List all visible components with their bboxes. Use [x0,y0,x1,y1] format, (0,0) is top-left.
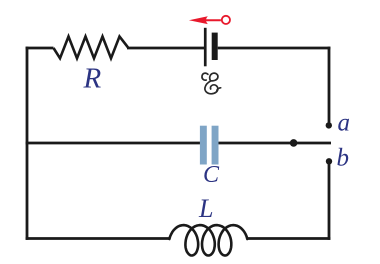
switch arrow (red) pivot circle [222,16,230,24]
svg-text:L: L [198,194,213,223]
wire: left vertical branch [26,47,29,240]
wire: resistor to battery [127,47,205,50]
svg-text:b: b [337,145,350,172]
switch arrow (red) shaft [205,19,221,21]
svg-text:C: C [203,162,220,188]
wire: battery to top-right corner [218,47,331,50]
svg-text:a: a [338,110,351,137]
capacitor C1 right plate [212,126,219,165]
wire: capacitor to switch pole [217,142,331,145]
battery U1 long thin plate [204,28,207,67]
battery U1 short thick plate [212,33,218,60]
terminal a dot [326,122,332,128]
wire: top-left horizontal to resistor [26,47,54,50]
switch arrow (red) head [189,16,208,24]
wire: bottom-left horizontal to inductor [26,237,170,240]
label EMF script E [202,73,221,94]
resistor R1 zigzag [54,37,129,59]
inductor L1 coil [169,225,247,255]
switch pole junction dot [290,139,298,147]
svg-text:R: R [83,63,102,95]
terminal b dot [326,158,332,164]
wire: inductor to bottom-right corner [247,237,330,240]
capacitor C1 left plate [200,126,207,165]
wire: middle branch horizontal [26,142,202,145]
wire: terminal b down to bottom-right corner [328,162,331,240]
wire: right vertical down to terminal a [328,47,331,124]
